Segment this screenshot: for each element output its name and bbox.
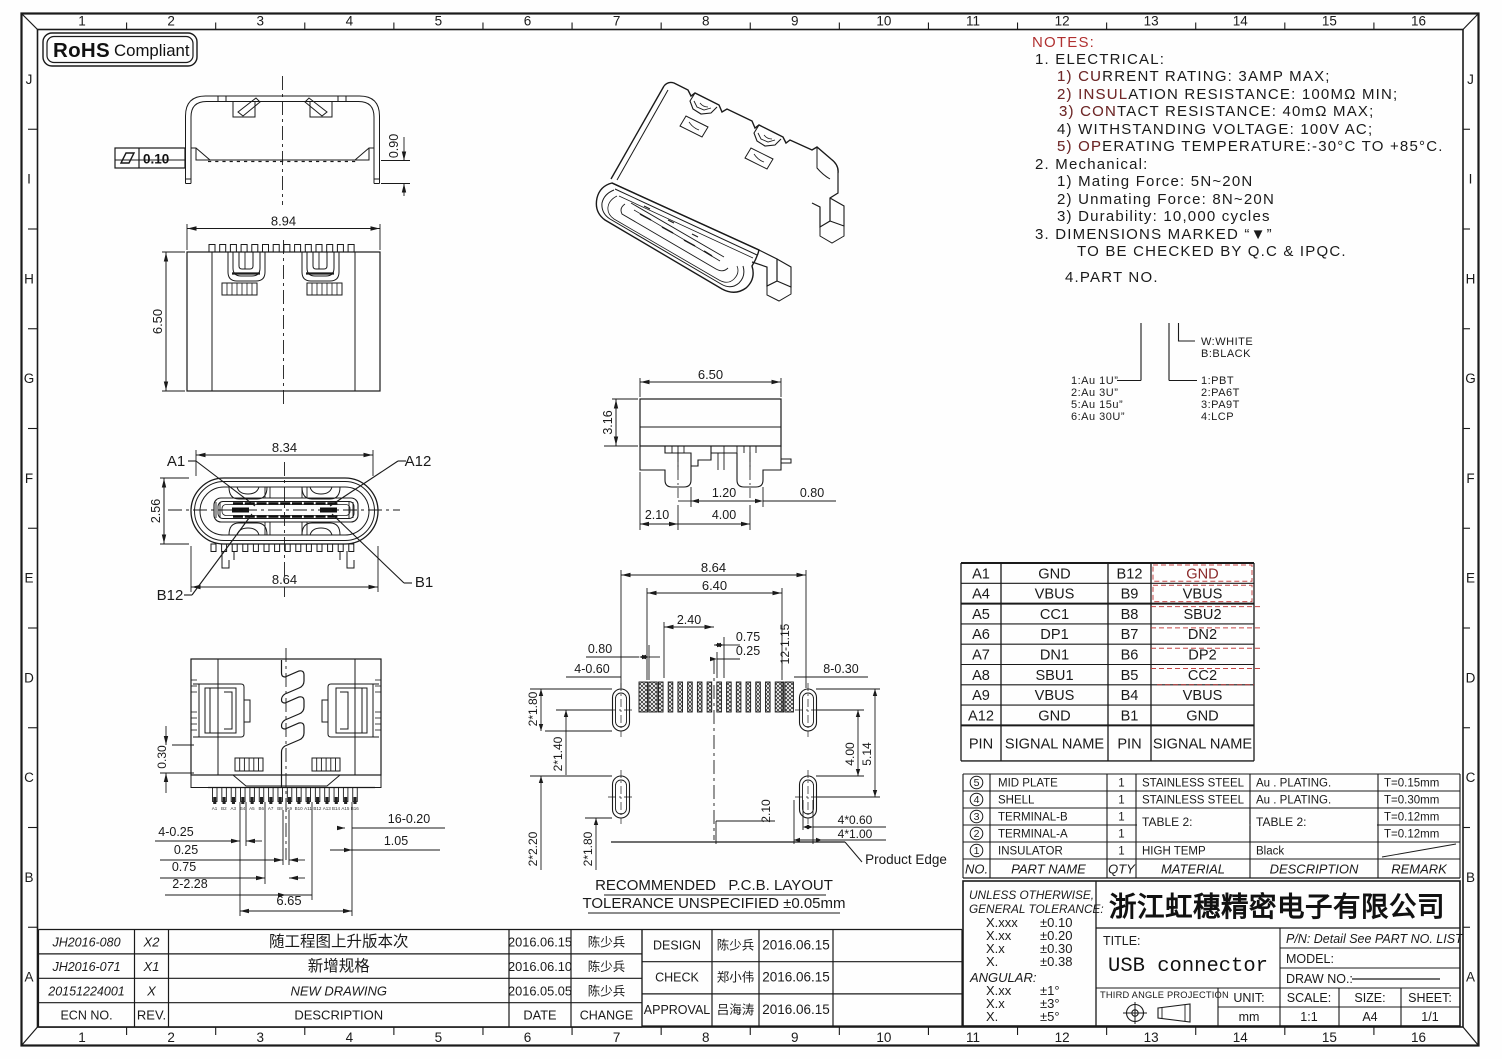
svg-text:5) OP: 5) OP [1057,138,1102,155]
svg-text:6.40: 6.40 [702,578,727,593]
part number legend tree [1140,323,1142,381]
svg-text:5: 5 [435,1030,443,1045]
svg-text:3.16: 3.16 [601,410,615,434]
svg-text:B12: B12 [157,587,184,604]
view: bottom view [191,659,381,788]
svg-text:8-0.30: 8-0.30 [823,662,858,676]
svg-text:TITLE:: TITLE: [1103,934,1141,948]
dimension 8.94 [186,224,188,250]
svg-text:6: 6 [524,1030,532,1045]
svg-text:DESIGN: DESIGN [653,939,701,953]
svg-text:B12: B12 [313,806,322,811]
svg-text:D: D [24,670,34,685]
svg-text:11: 11 [966,14,980,29]
svg-text:1.05: 1.05 [384,834,408,848]
svg-text:SBU2: SBU2 [1183,607,1221,623]
svg-text:TERMINAL-B: TERMINAL-B [998,812,1068,824]
svg-text:16: 16 [1411,1030,1426,1045]
svg-text:2*1.80: 2*1.80 [526,691,540,726]
dimension 2.56 [160,477,189,479]
svg-text:2*2.20: 2*2.20 [526,831,540,866]
svg-text:1: 1 [78,1030,86,1045]
svg-text:11: 11 [966,1030,980,1045]
svg-text:4-0.60: 4-0.60 [574,662,609,676]
svg-text:0.80: 0.80 [800,486,824,500]
svg-text:2. Mechanical:: 2. Mechanical: [1035,156,1149,173]
svg-text:DN1: DN1 [1040,648,1069,664]
svg-text:T=0.15mm: T=0.15mm [1384,778,1439,790]
svg-text:2.56: 2.56 [149,499,163,523]
svg-text:A4: A4 [1362,1010,1377,1024]
svg-text:3. DIMENSIONS MARKED “▼”: 3. DIMENSIONS MARKED “▼” [1035,226,1273,243]
dimension 8.64 [190,546,192,592]
svg-text:3) Durability: 10,000 cycles: 3) Durability: 10,000 cycles [1057,208,1271,225]
svg-text:13: 13 [1144,14,1159,29]
view: shell front elevation [186,96,380,184]
svg-text:CHECK: CHECK [655,971,699,985]
svg-text:B6: B6 [1121,648,1139,664]
svg-text:I: I [27,172,31,187]
svg-text:A1: A1 [167,453,185,470]
svg-text:A: A [1466,970,1475,985]
svg-text:W:WHITE: W:WHITE [1201,336,1253,348]
svg-text:A8: A8 [972,668,990,684]
svg-text:5.14: 5.14 [860,742,874,766]
corner diagonals [22,14,38,30]
svg-text:SCALE:: SCALE: [1287,991,1331,1005]
svg-text:A6: A6 [972,627,990,643]
svg-text:10: 10 [876,1030,891,1045]
dimension 0.90 (view1 right) [381,160,410,162]
centerline view1 [282,76,284,205]
svg-text:VBUS: VBUS [1183,587,1223,603]
svg-text:吕海涛: 吕海涛 [717,1002,755,1017]
approval table [642,930,962,1027]
svg-text:B1: B1 [415,574,433,591]
RoHS Compliant label [43,33,197,66]
unit scale size sheet [1233,991,1452,1024]
svg-text:JH2016-080: JH2016-080 [51,936,120,950]
svg-text:1: 1 [1118,795,1124,807]
red review marks on B column [1151,565,1262,685]
svg-text:浙江虹穗精密电子有限公司: 浙江虹穗精密电子有限公司 [1109,891,1445,922]
svg-text:8.64: 8.64 [272,572,297,587]
svg-text:1: 1 [974,845,980,857]
svg-text:T=0.12mm: T=0.12mm [1384,812,1439,824]
dim 8.64 v7 [620,570,622,688]
svg-text:B5: B5 [1121,668,1139,684]
pin assignment table [961,563,1254,761]
dim 0.75 v7 [723,637,725,678]
svg-text:3) CON: 3) CON [1059,103,1117,120]
svg-text:2.10: 2.10 [759,799,773,823]
svg-text:2016.06.15: 2016.06.15 [762,1002,830,1017]
svg-text:HIGH TEMP: HIGH TEMP [1142,846,1206,858]
svg-text:1: 1 [1118,829,1124,841]
svg-text:1: 1 [78,14,86,29]
dimension 6.50 (view2) [162,251,185,253]
svg-text:GND: GND [1038,708,1070,724]
svg-text:TO BE CHECKED BY Q.C & IPQC.: TO BE CHECKED BY Q.C & IPQC. [1077,243,1347,260]
svg-text:SHELL: SHELL [998,795,1035,807]
svg-text:7: 7 [613,14,621,29]
svg-text:G: G [24,371,35,386]
svg-text:TABLE 2:: TABLE 2: [1142,815,1192,829]
svg-text:MODEL:: MODEL: [1286,952,1334,966]
svg-text:4.PART NO.: 4.PART NO. [1065,269,1159,286]
centerline view2 [283,240,285,404]
svg-text:B9: B9 [1121,587,1139,603]
svg-text:3: 3 [256,1030,264,1045]
svg-text:DP1: DP1 [1040,627,1068,643]
svg-text:15: 15 [1322,1030,1337,1045]
svg-text:2016.05.05: 2016.05.05 [508,983,572,998]
svg-text:4:LCP: 4:LCP [1201,411,1234,423]
svg-text:10: 10 [876,14,891,29]
svg-text:VBUS: VBUS [1035,587,1075,603]
svg-text:2) INSUL: 2) INSUL [1057,86,1128,103]
svg-text:Black: Black [1256,846,1284,858]
svg-text:TERMINAL-A: TERMINAL-A [998,829,1068,841]
svg-text:陈少兵: 陈少兵 [588,935,626,950]
svg-text:B4: B4 [1121,688,1139,704]
svg-text:TABLE 2:: TABLE 2: [1256,815,1306,829]
svg-text:12-1.15: 12-1.15 [778,623,792,664]
svg-text:1:Au 1U”: 1:Au 1U” [1071,375,1118,387]
svg-text:1. ELECTRICAL:: 1. ELECTRICAL: [1035,51,1165,68]
svg-text:B:BLACK: B:BLACK [1201,348,1251,360]
svg-text:DP2: DP2 [1188,648,1216,664]
svg-text:9: 9 [791,14,799,29]
svg-text:DESCRIPTION: DESCRIPTION [1270,862,1359,877]
svg-text:14: 14 [1233,14,1249,29]
svg-text:SIZE:: SIZE: [1354,991,1385,1005]
svg-text:J: J [1467,72,1474,87]
svg-text:0.25: 0.25 [736,644,760,658]
svg-text:X1: X1 [143,959,160,974]
svg-text:4-0.25: 4-0.25 [158,825,193,839]
svg-text:UNLESS OTHERWISE,: UNLESS OTHERWISE, [969,888,1094,902]
svg-text:4*0.60: 4*0.60 [838,813,873,827]
notes text block [1032,34,1444,286]
svg-text:PIN: PIN [969,736,993,752]
svg-text:16-0.20: 16-0.20 [388,812,430,826]
svg-text:STAINLESS STEEL: STAINLESS STEEL [1142,795,1245,807]
svg-text:2016.06.15: 2016.06.15 [508,935,572,950]
svg-text:2016.06.15: 2016.06.15 [762,970,830,985]
svg-text:1: 1 [1118,778,1124,790]
svg-text:新增规格: 新增规格 [308,957,371,975]
svg-text:DESCRIPTION: DESCRIPTION [294,1008,383,1023]
svg-text:0.80: 0.80 [588,642,612,656]
svg-text:X.: X. [986,1009,998,1024]
svg-text:USB connector: USB connector [1108,955,1268,978]
svg-text:1.20: 1.20 [712,486,736,500]
svg-text:12: 12 [1055,1030,1070,1045]
svg-text:5: 5 [435,14,443,29]
svg-text:0.90: 0.90 [387,134,401,158]
svg-text:RECOMMENDED P.C.B. LAYOUT: RECOMMENDED P.C.B. LAYOUT [595,877,833,894]
svg-text:3: 3 [974,811,980,823]
svg-text:PIN: PIN [1117,736,1141,752]
svg-text:A12: A12 [405,453,432,470]
svg-text:GND: GND [1186,566,1218,582]
svg-text:4) WITHSTANDING VOLTAGE: 100V: 4) WITHSTANDING VOLTAGE: 100V AC; [1057,121,1373,138]
svg-text:APPROVAL: APPROVAL [644,1003,711,1017]
svg-text:C: C [1466,770,1476,785]
svg-text:B14: B14 [332,806,341,811]
svg-text:J: J [26,72,33,87]
svg-text:±0.38: ±0.38 [1040,954,1072,969]
svg-text:陈少兵: 陈少兵 [588,983,626,998]
svg-text:16: 16 [1411,14,1426,29]
svg-text:T=0.12mm: T=0.12mm [1384,829,1439,841]
svg-text:C: C [24,770,34,785]
svg-text:0.30: 0.30 [155,745,169,769]
dim 6.40 v7 [646,588,648,680]
dimension 8.34 [195,450,197,476]
svg-text:RoHS: RoHS [53,39,110,62]
svg-text:A1: A1 [212,806,218,811]
svg-text:郑小伟: 郑小伟 [717,970,755,985]
revision history table [39,930,643,1028]
svg-text:X2: X2 [143,935,161,950]
svg-text:4*1.00: 4*1.00 [838,827,873,841]
svg-text:6.65: 6.65 [276,893,301,908]
svg-text:12: 12 [1055,14,1070,29]
svg-text:E: E [1466,571,1475,586]
flatness callout 0.10 [115,148,185,168]
svg-text:B8: B8 [1121,607,1139,623]
svg-text:G: G [1465,371,1476,386]
svg-text:14: 14 [1233,1030,1249,1045]
svg-text:B: B [1466,870,1475,885]
svg-text:1:1: 1:1 [1300,1010,1317,1024]
svg-text:A1: A1 [972,566,990,582]
svg-text:2:Au 3U”: 2:Au 3U” [1071,387,1118,399]
svg-text:A5: A5 [972,607,990,623]
svg-text:I: I [1469,172,1473,187]
svg-text:0.10: 0.10 [143,152,169,167]
svg-text:A15: A15 [341,806,350,811]
svg-text:陈少兵: 陈少兵 [588,959,626,974]
svg-text:Product Edge: Product Edge [865,852,947,867]
svg-text:2016.06.10: 2016.06.10 [508,959,572,974]
svg-text:15: 15 [1322,14,1337,29]
dim 3.16 view6 [612,398,638,400]
svg-text:8: 8 [702,14,710,29]
svg-text:B6: B6 [258,806,264,811]
svg-text:0.75: 0.75 [172,860,196,874]
svg-text:4: 4 [346,1030,354,1045]
svg-text:JH2016-071: JH2016-071 [51,960,120,974]
svg-text:A5: A5 [249,806,255,811]
svg-text:REMARK: REMARK [1391,862,1448,877]
svg-text:A9: A9 [972,688,990,704]
svg-text:±5°: ±5° [1040,1009,1060,1024]
view: isometric 3D connector [596,82,844,301]
svg-text:8.64: 8.64 [701,560,726,575]
svg-text:6.50: 6.50 [150,309,165,334]
svg-text:2) Unmating Force: 8N~20N: 2) Unmating Force: 8N~20N [1057,191,1275,208]
svg-text:8.94: 8.94 [271,214,296,229]
svg-text:A4: A4 [972,587,990,603]
title block [963,881,1460,1026]
svg-text:13: 13 [1144,1030,1159,1045]
svg-text:4.00: 4.00 [843,742,857,766]
svg-text:2: 2 [167,14,175,29]
centerline view4 [285,648,287,860]
svg-text:2:PA6T: 2:PA6T [1201,387,1240,399]
svg-text:GND: GND [1038,566,1070,582]
svg-text:REV.: REV. [137,1008,166,1023]
svg-text:3:PA9T: 3:PA9T [1201,399,1240,411]
svg-text:CC1: CC1 [1040,607,1069,623]
svg-text:SHEET:: SHEET: [1408,991,1452,1005]
svg-text:A7: A7 [268,806,274,811]
svg-text:B12: B12 [1117,566,1143,582]
svg-text:VBUS: VBUS [1035,688,1075,704]
svg-text:DRAW NO.:: DRAW NO.: [1286,972,1353,986]
svg-text:MATERIAL: MATERIAL [1161,862,1225,877]
svg-text:4: 4 [346,14,354,29]
svg-text:DATE: DATE [523,1008,556,1023]
svg-text:NOTES:: NOTES: [1032,34,1095,51]
svg-text:5: 5 [974,777,980,789]
svg-text:2*1.40: 2*1.40 [551,736,565,771]
svg-text:1: 1 [1118,812,1124,824]
svg-text:SBU1: SBU1 [1035,668,1073,684]
svg-text:陈少兵: 陈少兵 [717,938,755,953]
svg-text:ECN NO.: ECN NO. [60,1009,112,1023]
svg-text:5:Au 15u”: 5:Au 15u” [1071,399,1123,411]
svg-text:7: 7 [613,1030,621,1045]
svg-text:1: 1 [1118,846,1124,858]
centerlines view3 [284,462,286,597]
red annotation overlay on notes [1057,68,1128,155]
svg-text:5) OPERATING TEMPERATURE:-30°C: 5) OPERATING TEMPERATURE:-30°C TO +85°C. [1057,138,1444,155]
dim 0.25 v7 [716,652,718,678]
view: mating face (stadium) [191,478,378,568]
svg-text:SIGNAL NAME: SIGNAL NAME [1005,736,1104,752]
centerlines view6 legs [677,452,679,500]
svg-text:INSULATOR: INSULATOR [998,846,1063,858]
svg-text:A9: A9 [287,806,293,811]
svg-text:A7: A7 [972,648,990,664]
svg-text:A3: A3 [230,806,236,811]
svg-text:0.75: 0.75 [736,630,760,644]
svg-text:P/N: Detail See PART NO. LIST: P/N: Detail See PART NO. LIST [1286,932,1464,946]
svg-text:E: E [24,571,33,586]
svg-text:1) Mating Force: 5N~20N: 1) Mating Force: 5N~20N [1057,173,1253,190]
svg-text:B8: B8 [277,806,283,811]
svg-text:F: F [1466,471,1474,486]
svg-text:MID PLATE: MID PLATE [998,778,1058,790]
svg-text:2*1.80: 2*1.80 [581,831,595,866]
svg-text:PART NAME: PART NAME [1011,862,1086,877]
svg-text:2: 2 [167,1030,175,1045]
svg-text:2.10: 2.10 [645,508,669,522]
svg-text:0.25: 0.25 [174,843,198,857]
tolerance text [969,888,1104,916]
svg-text:随工程图上升版本次: 随工程图上升版本次 [269,933,409,951]
svg-text:1:PBT: 1:PBT [1201,375,1234,387]
svg-text:T=0.30mm: T=0.30mm [1384,795,1439,807]
svg-text:B2: B2 [221,806,227,811]
svg-text:1) CU: 1) CU [1057,68,1102,85]
view: side elevation [640,399,791,487]
svg-text:H: H [24,271,34,286]
svg-text:H: H [1466,271,1476,286]
svg-text:DN2: DN2 [1188,627,1217,643]
svg-text:6: 6 [524,14,532,29]
dim 0.30 view4 [172,744,194,746]
svg-text:CHANGE: CHANGE [580,1009,633,1023]
svg-text:X.: X. [986,954,998,969]
svg-text:Compliant: Compliant [114,41,190,60]
centerline view7 [713,660,715,840]
svg-text:6:Au 30U”: 6:Au 30U” [1071,411,1125,423]
bill of materials table [963,774,1460,878]
svg-text:STAINLESS STEEL: STAINLESS STEEL [1142,778,1245,790]
svg-text:UNIT:: UNIT: [1233,991,1264,1005]
svg-text:B4: B4 [240,806,246,811]
dim 2.40 v7 [663,622,665,678]
svg-text:20151224001: 20151224001 [47,984,124,998]
svg-text:2016.06.15: 2016.06.15 [762,938,830,953]
view: recommended PCB layout [608,682,821,824]
svg-text:TOLERANCE UNSPECIFIED ±0.05mm: TOLERANCE UNSPECIFIED ±0.05mm [582,895,845,912]
svg-text:B10: B10 [295,806,304,811]
svg-text:X: X [146,983,157,998]
svg-text:NO.: NO. [965,862,988,877]
svg-text:Au . PLATING.: Au . PLATING. [1256,795,1331,807]
svg-text:B: B [24,870,33,885]
svg-text:8.34: 8.34 [272,440,297,455]
svg-text:Au . PLATING.: Au . PLATING. [1256,778,1331,790]
svg-text:9: 9 [791,1030,799,1045]
view: shell top view [187,245,380,392]
svg-text:GND: GND [1186,708,1218,724]
svg-text:F: F [25,471,33,486]
svg-text:2-2.28: 2-2.28 [172,877,207,891]
svg-text:A: A [24,970,33,985]
svg-text:8: 8 [702,1030,710,1045]
svg-text:3: 3 [256,14,264,29]
dim 6.50 view6 [639,378,641,397]
svg-text:THIRD ANGLE PROJECTION: THIRD ANGLE PROJECTION [1100,990,1229,1000]
svg-text:A13: A13 [323,806,332,811]
svg-text:GENERAL TOLERANCE:: GENERAL TOLERANCE: [969,902,1104,916]
svg-text:CC2: CC2 [1188,668,1217,684]
svg-text:2.40: 2.40 [677,613,701,627]
svg-text:D: D [1466,670,1476,685]
svg-text:4.00: 4.00 [712,508,736,522]
svg-text:NEW DRAWING: NEW DRAWING [290,983,387,998]
svg-text:QTY: QTY [1108,862,1136,877]
svg-text:6.50: 6.50 [698,367,723,382]
svg-text:SIGNAL NAME: SIGNAL NAME [1153,736,1252,752]
svg-text:VBUS: VBUS [1183,688,1223,704]
svg-text:mm: mm [1239,1010,1260,1024]
pin comb view4 [213,788,358,805]
svg-text:4: 4 [974,794,980,806]
svg-text:A11: A11 [304,806,312,811]
svg-text:A12: A12 [968,708,994,724]
svg-text:B1: B1 [1121,708,1139,724]
product edge line [611,841,845,843]
svg-text:B7: B7 [1121,627,1139,643]
